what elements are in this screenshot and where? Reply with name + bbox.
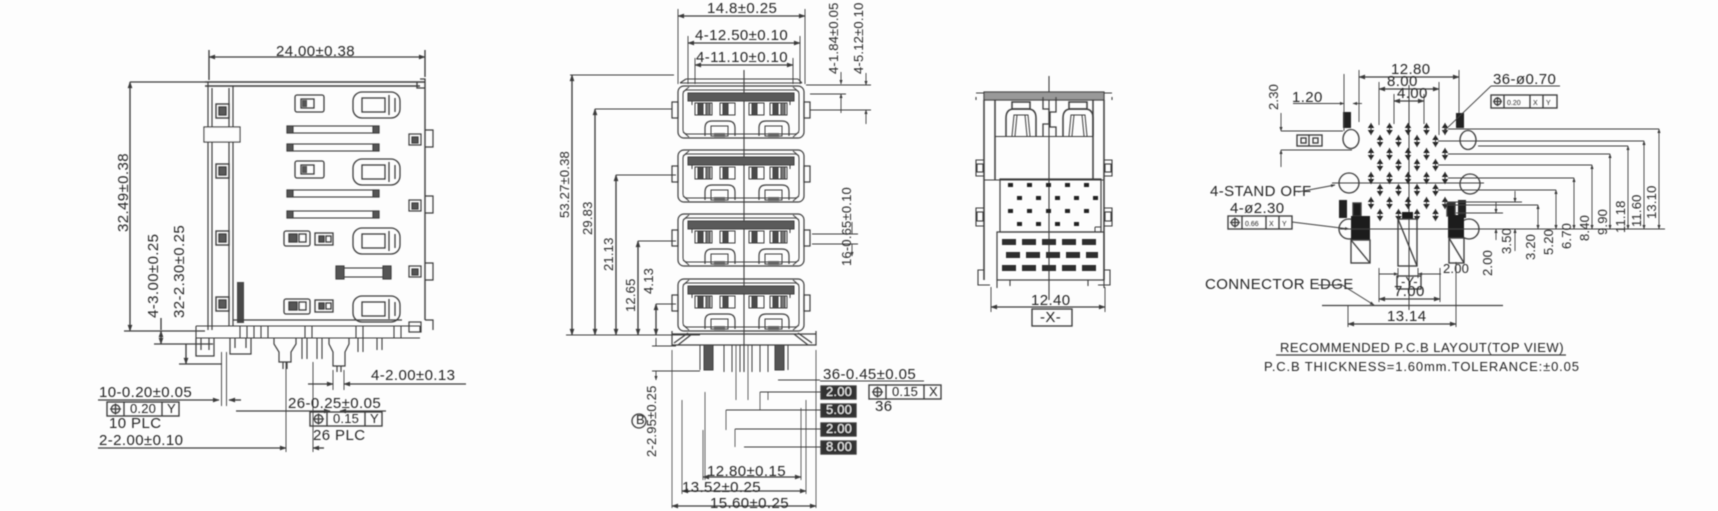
svg-text:2-2.00±0.10: 2-2.00±0.10 [99,432,183,449]
svg-text:6.70: 6.70 [1559,223,1574,249]
usb unit 4 feet [705,314,789,330]
gdt frame 0.20 X Y [1491,95,1557,108]
port3 capped bar [336,266,391,279]
dim 4-11.10±0.10 [695,49,793,84]
port2 contact bar A [287,190,379,197]
bottom flange [672,331,816,345]
svg-text:4-STAND OFF: 4-STAND OFF [1210,183,1312,200]
dim 3.50 vert [1448,191,1522,254]
left board lock [196,338,214,356]
svg-text:29.83: 29.83 [580,201,595,235]
port3 clip [353,228,400,254]
inner pin dim lines [705,392,768,480]
shield tab top-left [1343,112,1351,128]
port2 contact bar B [287,211,379,218]
port3 latch boxes [284,231,333,246]
stand-off circle bottom-left [1339,219,1359,239]
dim 4-3.00±0.25 [145,234,213,344]
svg-text:2.00: 2.00 [826,421,852,436]
feet [978,270,1110,288]
svg-text:32-2.30±0.25: 32-2.30±0.25 [171,225,188,318]
dim 11.60 [1438,141,1644,229]
svg-text:4-5.12±0.10: 4-5.12±0.10 [851,3,866,75]
svg-text:8.40: 8.40 [1577,215,1592,241]
slot right [1448,215,1464,263]
usb unit 1 shell [672,86,810,138]
value box 5.00 [726,402,856,417]
center axis horizontal [1332,182,1484,184]
strip hole 3 [216,231,229,245]
left mounting strip [208,82,233,330]
port2 right hook [409,196,433,213]
dim 2.00 slot width [1379,261,1469,278]
usb unit 3 contacts [695,231,787,243]
port1 contact bar A [287,126,379,133]
svg-text:4-3.00±0.25: 4-3.00±0.25 [145,234,162,318]
label 4-STAND OFF [1210,183,1335,217]
svg-text:0.66: 0.66 [1245,221,1259,228]
svg-text:2-2.95±0.25: 2-2.95±0.25 [644,386,659,458]
dim 16-0.65±0.10 [812,187,858,266]
dim 7.00 [1379,268,1440,302]
crown latch left [1006,102,1036,136]
stand-off oval top-right [1460,131,1476,150]
svg-text:7.00: 7.00 [1394,283,1425,300]
center axis [743,70,745,372]
svg-text:-X-: -X- [1040,309,1061,326]
datum box -Y- [1397,274,1421,289]
svg-text:0.15: 0.15 [892,384,918,399]
svg-text:Y: Y [1546,100,1551,107]
svg-text:Y: Y [370,411,379,426]
usb unit 2 feet [705,185,789,201]
side tab lower right [1104,208,1112,226]
dim 4.13 [641,268,656,335]
pin 2 trapezoid [329,338,349,372]
dim 9.90 [1448,154,1610,235]
body bottom edge [233,319,402,321]
svg-text:4-ø2.30: 4-ø2.30 [1230,200,1285,217]
port1 clip [353,92,400,118]
svg-text:13.10: 13.10 [1644,185,1659,219]
bottom flange rail [196,326,420,356]
datum box left [1297,135,1322,146]
port1 right hook [409,130,433,147]
svg-text:53.27±0.38: 53.27±0.38 [557,151,572,218]
perforated plate [1000,179,1101,232]
center S strip [1043,97,1056,136]
dim 2.00 vert [1456,202,1503,276]
dim 53.27±0.38 [557,75,572,335]
stand-off circle mid-right [1460,174,1480,194]
dim 10-0.20±0.05 [98,384,241,401]
svg-text:4-11.10±0.10: 4-11.10±0.10 [696,49,788,66]
usb unit 3 feet [705,249,789,265]
svg-text:3.20: 3.20 [1523,234,1538,260]
dim 12.80±0.15 [703,408,801,480]
svg-text:4-1.84±0.05: 4-1.84±0.05 [826,3,841,75]
dim 13.10 [1448,129,1659,229]
svg-text:X: X [1269,221,1274,228]
port1 contact bar B [287,144,379,151]
top cap [680,79,802,83]
svg-text:CONNECTOR EDGE: CONNECTOR EDGE [1205,276,1354,293]
side tab upper left [976,160,984,176]
gdt frame 0.20 Y [107,401,179,416]
svg-text:12.80±0.15: 12.80±0.15 [707,463,786,480]
side tab upper right [1104,160,1112,176]
view 1: connector side view [98,43,466,452]
svg-text:12.40: 12.40 [1031,292,1071,309]
port1 latch box [295,95,324,112]
shelf line [984,137,1104,181]
usb unit 1 contacts [695,103,787,115]
dim 8.00 [1379,73,1439,135]
body sides [984,100,1104,280]
svg-text:0.20: 0.20 [1507,100,1521,107]
svg-text:8.00: 8.00 [826,439,852,454]
dim 12.65 [623,241,638,335]
shield tab mid-right [1458,200,1466,218]
svg-text:11.60: 11.60 [1629,194,1644,227]
dim 5.20 [1438,190,1556,255]
center axis vertical [1408,85,1410,310]
svg-text:P.C.B THICKNESS=1.60mm.TOLERA: P.C.B THICKNESS=1.60mm.TOLERANCE:±0.05 [1264,359,1580,374]
pin field [700,345,788,400]
dim 32-2.30±0.25 [171,225,222,364]
svg-text:4.00: 4.00 [1397,85,1428,102]
stand-off circle bottom-right [1459,219,1479,239]
dim 2.30 [1266,84,1352,167]
svg-text:13.14: 13.14 [1387,308,1427,325]
dim 4-12.50±0.10 [688,27,800,84]
value box 2.00b [735,421,856,436]
dim 13.14 [1348,262,1456,327]
lower dashed block [997,232,1104,280]
dim 4.00 [1394,85,1428,124]
right dim baseline [1340,228,1665,230]
dim 3.20 [1448,205,1538,260]
slot center [1398,212,1417,266]
svg-text:1.20: 1.20 [1292,89,1323,106]
svg-text:36-ø0.70: 36-ø0.70 [1493,71,1556,88]
dim 8.40 [1438,165,1592,241]
dim 11.18 [1478,146,1628,233]
svg-text:0.20: 0.20 [130,401,156,416]
svg-text:10-0.20±0.05: 10-0.20±0.05 [99,384,192,401]
svg-text:32.49±0.38: 32.49±0.38 [115,153,132,232]
connector edge line [1322,305,1503,307]
dim 29.83 [580,109,595,335]
svg-text:Y: Y [1282,221,1287,228]
slot left [1351,216,1370,263]
dash rows [1002,239,1098,271]
gdt frame 0.15 Y [310,411,382,426]
pad grid 36 holes [1368,123,1448,221]
view 2: front view stacked receptacles [557,0,941,511]
dim 4-1.84±0.05 [826,3,841,114]
port2 latch box [295,161,324,178]
svg-text:4.13: 4.13 [641,268,656,294]
slot guide rect right [1447,203,1455,216]
usb unit 4 shell [672,279,810,331]
port2 clip [353,159,400,185]
port4 clip [353,296,400,322]
crown latch right [1063,102,1093,136]
top cap band [984,92,1104,100]
strip notch [204,127,240,142]
center axis [1048,76,1050,300]
port3 right hook [409,263,433,280]
stand-off circle mid-left [1339,173,1359,193]
svg-text:11.18: 11.18 [1613,200,1628,233]
dim 36-0.45±0.05 [760,366,924,392]
left dim lines [566,75,700,335]
plate holes [1008,183,1098,226]
svg-text:16-0.65±0.10: 16-0.65±0.10 [839,187,854,266]
svg-text:X: X [1533,100,1538,107]
note line 1 [1276,340,1566,355]
svg-text:3.50: 3.50 [1499,228,1514,254]
view 3: rear view [976,76,1112,326]
svg-text:9.90: 9.90 [1595,209,1610,235]
usb unit 1 tongue [688,93,794,101]
usb unit 4 tongue [688,286,794,294]
datum box -X- [1032,309,1072,326]
svg-text:36: 36 [875,398,893,415]
dim 13.52±0.25 [682,400,806,496]
dim 12.80 top [1359,61,1459,122]
svg-text:2.00: 2.00 [1480,250,1495,276]
svg-text:2.30: 2.30 [1266,84,1281,110]
pin 1 trapezoid [274,338,296,369]
slot guide rect left [1353,203,1361,216]
dim 4-2.00±0.13 [308,367,466,384]
second tab [230,338,251,354]
svg-text:15.60±0.25: 15.60±0.25 [710,495,789,511]
strip hole 1 [216,104,229,118]
usb unit 1 feet [705,121,789,137]
svg-text:26 PLC: 26 PLC [313,427,365,444]
strip hole 2 [216,164,229,178]
view 4: pcb layout [1205,61,1665,374]
svg-text:4-12.50±0.10: 4-12.50±0.10 [695,27,788,44]
usb unit 2 shell [672,150,810,202]
thin pins [302,338,382,359]
port4 right hook [409,320,433,332]
dim 1.20 [1292,89,1362,106]
side tab lower left [976,208,984,226]
svg-text:X: X [929,384,938,399]
stand-off oval top-left [1343,130,1359,149]
svg-text:36-0.45±0.05: 36-0.45±0.05 [823,366,916,383]
svg-text:13.52±0.25: 13.52±0.25 [682,479,761,496]
port4 latch boxes [284,299,333,314]
svg-text:26-0.25±0.05: 26-0.25±0.05 [288,395,381,412]
svg-text:12.65: 12.65 [623,278,638,312]
dim 24.00±0.38 [209,43,425,80]
svg-text:RECOMMENDED P.C.B LAYOUT(TOP: RECOMMENDED P.C.B LAYOUT(TOP VIEW) [1280,340,1564,355]
dim 26-0.25±0.05 [236,395,386,412]
usb unit 3 tongue [688,221,794,229]
usb unit 4 contacts [695,296,787,308]
dim 21.13 [601,175,616,335]
usb unit 3 shell [672,214,810,266]
strip hole 4 [216,297,229,311]
ext lines bottom [222,352,345,452]
svg-text:2.00: 2.00 [826,384,852,399]
right ext lines [570,75,871,110]
dim 2-2.00±0.10 [98,432,324,449]
usb unit 2 contacts [695,167,787,179]
dim 6.70 [1448,178,1574,249]
svg-text:14.8±0.25: 14.8±0.25 [707,0,777,17]
usb unit 2 tongue [688,157,794,165]
svg-text:5.20: 5.20 [1541,229,1556,255]
value box 2.00 [768,384,856,399]
svg-text:Y: Y [167,401,176,416]
gdt frame 0.15 X [869,384,941,415]
label 36-ø0.70 [1443,71,1560,132]
left edge line [1343,74,1345,131]
shield tab mid-left [1339,200,1347,218]
body outline [205,82,425,320]
top-right corner step [417,79,425,88]
gdt frame stand-off [1228,216,1349,229]
svg-text:0.15: 0.15 [333,411,359,426]
dim 14.8±0.25 [678,0,805,84]
dim 4-5.12±0.10 [851,3,866,125]
dim 32.49±0.38 [115,82,205,331]
dim 15.60±0.25 [672,350,816,511]
svg-text:21.13: 21.13 [601,237,616,271]
svg-text:4-2.00±0.13: 4-2.00±0.13 [371,367,455,384]
svg-text:5.00: 5.00 [826,402,852,417]
dim 2-2.95±0.25 + datum B [632,338,700,457]
dark EMI bar [237,282,244,323]
svg-text:24.00±0.38: 24.00±0.38 [276,43,355,60]
shield tab top-right [1456,113,1464,128]
dim 12.40 [991,287,1105,312]
value box 8.00 [744,439,856,454]
svg-text:10 PLC: 10 PLC [109,415,161,432]
